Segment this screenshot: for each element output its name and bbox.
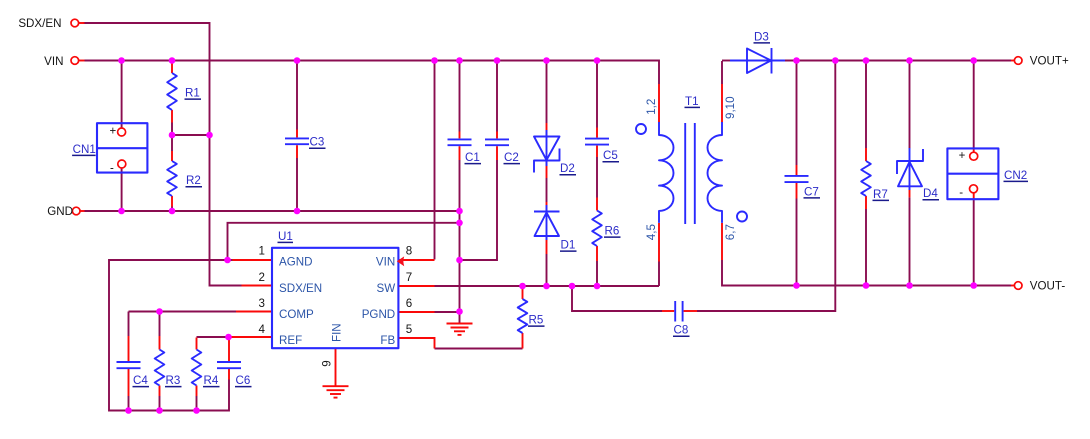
svg-text:COMP: COMP — [279, 308, 314, 321]
svg-text:T1: T1 — [685, 95, 699, 108]
svg-text:PGND: PGND — [362, 308, 396, 321]
svg-text:C8: C8 — [674, 324, 689, 337]
svg-text:SDX/EN: SDX/EN — [279, 282, 322, 295]
svg-text:C5: C5 — [603, 149, 618, 162]
svg-text:C7: C7 — [804, 185, 819, 198]
svg-text:+: + — [110, 126, 117, 138]
svg-text:R3: R3 — [166, 374, 181, 387]
svg-text:AGND: AGND — [279, 256, 313, 269]
svg-text:FIN: FIN — [331, 323, 344, 342]
svg-text:5: 5 — [406, 323, 412, 336]
svg-text:D3: D3 — [754, 30, 769, 43]
svg-text:+: + — [959, 150, 966, 162]
svg-text:D2: D2 — [560, 162, 575, 175]
svg-text:VIN: VIN — [376, 256, 395, 269]
svg-text:6,7: 6,7 — [724, 224, 737, 240]
svg-text:8: 8 — [406, 245, 412, 258]
svg-text:SDX/EN: SDX/EN — [18, 17, 61, 30]
svg-text:C6: C6 — [236, 374, 251, 387]
svg-text:GND: GND — [47, 205, 73, 218]
svg-text:C2: C2 — [504, 151, 519, 164]
svg-text:-: - — [959, 187, 963, 199]
svg-text:-: - — [110, 163, 114, 175]
svg-text:CN1: CN1 — [73, 143, 96, 156]
svg-text:R1: R1 — [185, 87, 200, 100]
svg-text:VIN: VIN — [44, 55, 63, 68]
svg-text:7: 7 — [406, 271, 412, 284]
svg-text:R6: R6 — [605, 225, 620, 238]
svg-text:9: 9 — [320, 360, 333, 366]
svg-text:1: 1 — [259, 245, 265, 258]
svg-text:3: 3 — [259, 297, 265, 310]
svg-text:D1: D1 — [561, 239, 576, 252]
svg-text:CN2: CN2 — [1004, 169, 1027, 182]
svg-text:9,10: 9,10 — [724, 96, 737, 119]
svg-text:R7: R7 — [873, 188, 888, 201]
svg-text:4,5: 4,5 — [645, 224, 658, 240]
svg-text:R4: R4 — [204, 374, 219, 387]
svg-text:VOUT+: VOUT+ — [1030, 55, 1069, 68]
svg-text:FB: FB — [380, 334, 395, 347]
svg-text:VOUT-: VOUT- — [1030, 280, 1066, 293]
svg-text:R2: R2 — [186, 174, 201, 187]
svg-text:REF: REF — [279, 334, 302, 347]
svg-text:C1: C1 — [465, 151, 480, 164]
svg-text:6: 6 — [406, 297, 412, 310]
svg-text:1,2: 1,2 — [645, 99, 658, 115]
svg-text:2: 2 — [259, 271, 265, 284]
svg-text:D4: D4 — [923, 187, 938, 200]
svg-text:R5: R5 — [529, 314, 544, 327]
svg-text:SW: SW — [377, 282, 396, 295]
svg-text:C4: C4 — [133, 374, 148, 387]
svg-text:C3: C3 — [310, 136, 325, 149]
svg-text:4: 4 — [259, 323, 266, 336]
svg-text:U1: U1 — [278, 230, 293, 243]
